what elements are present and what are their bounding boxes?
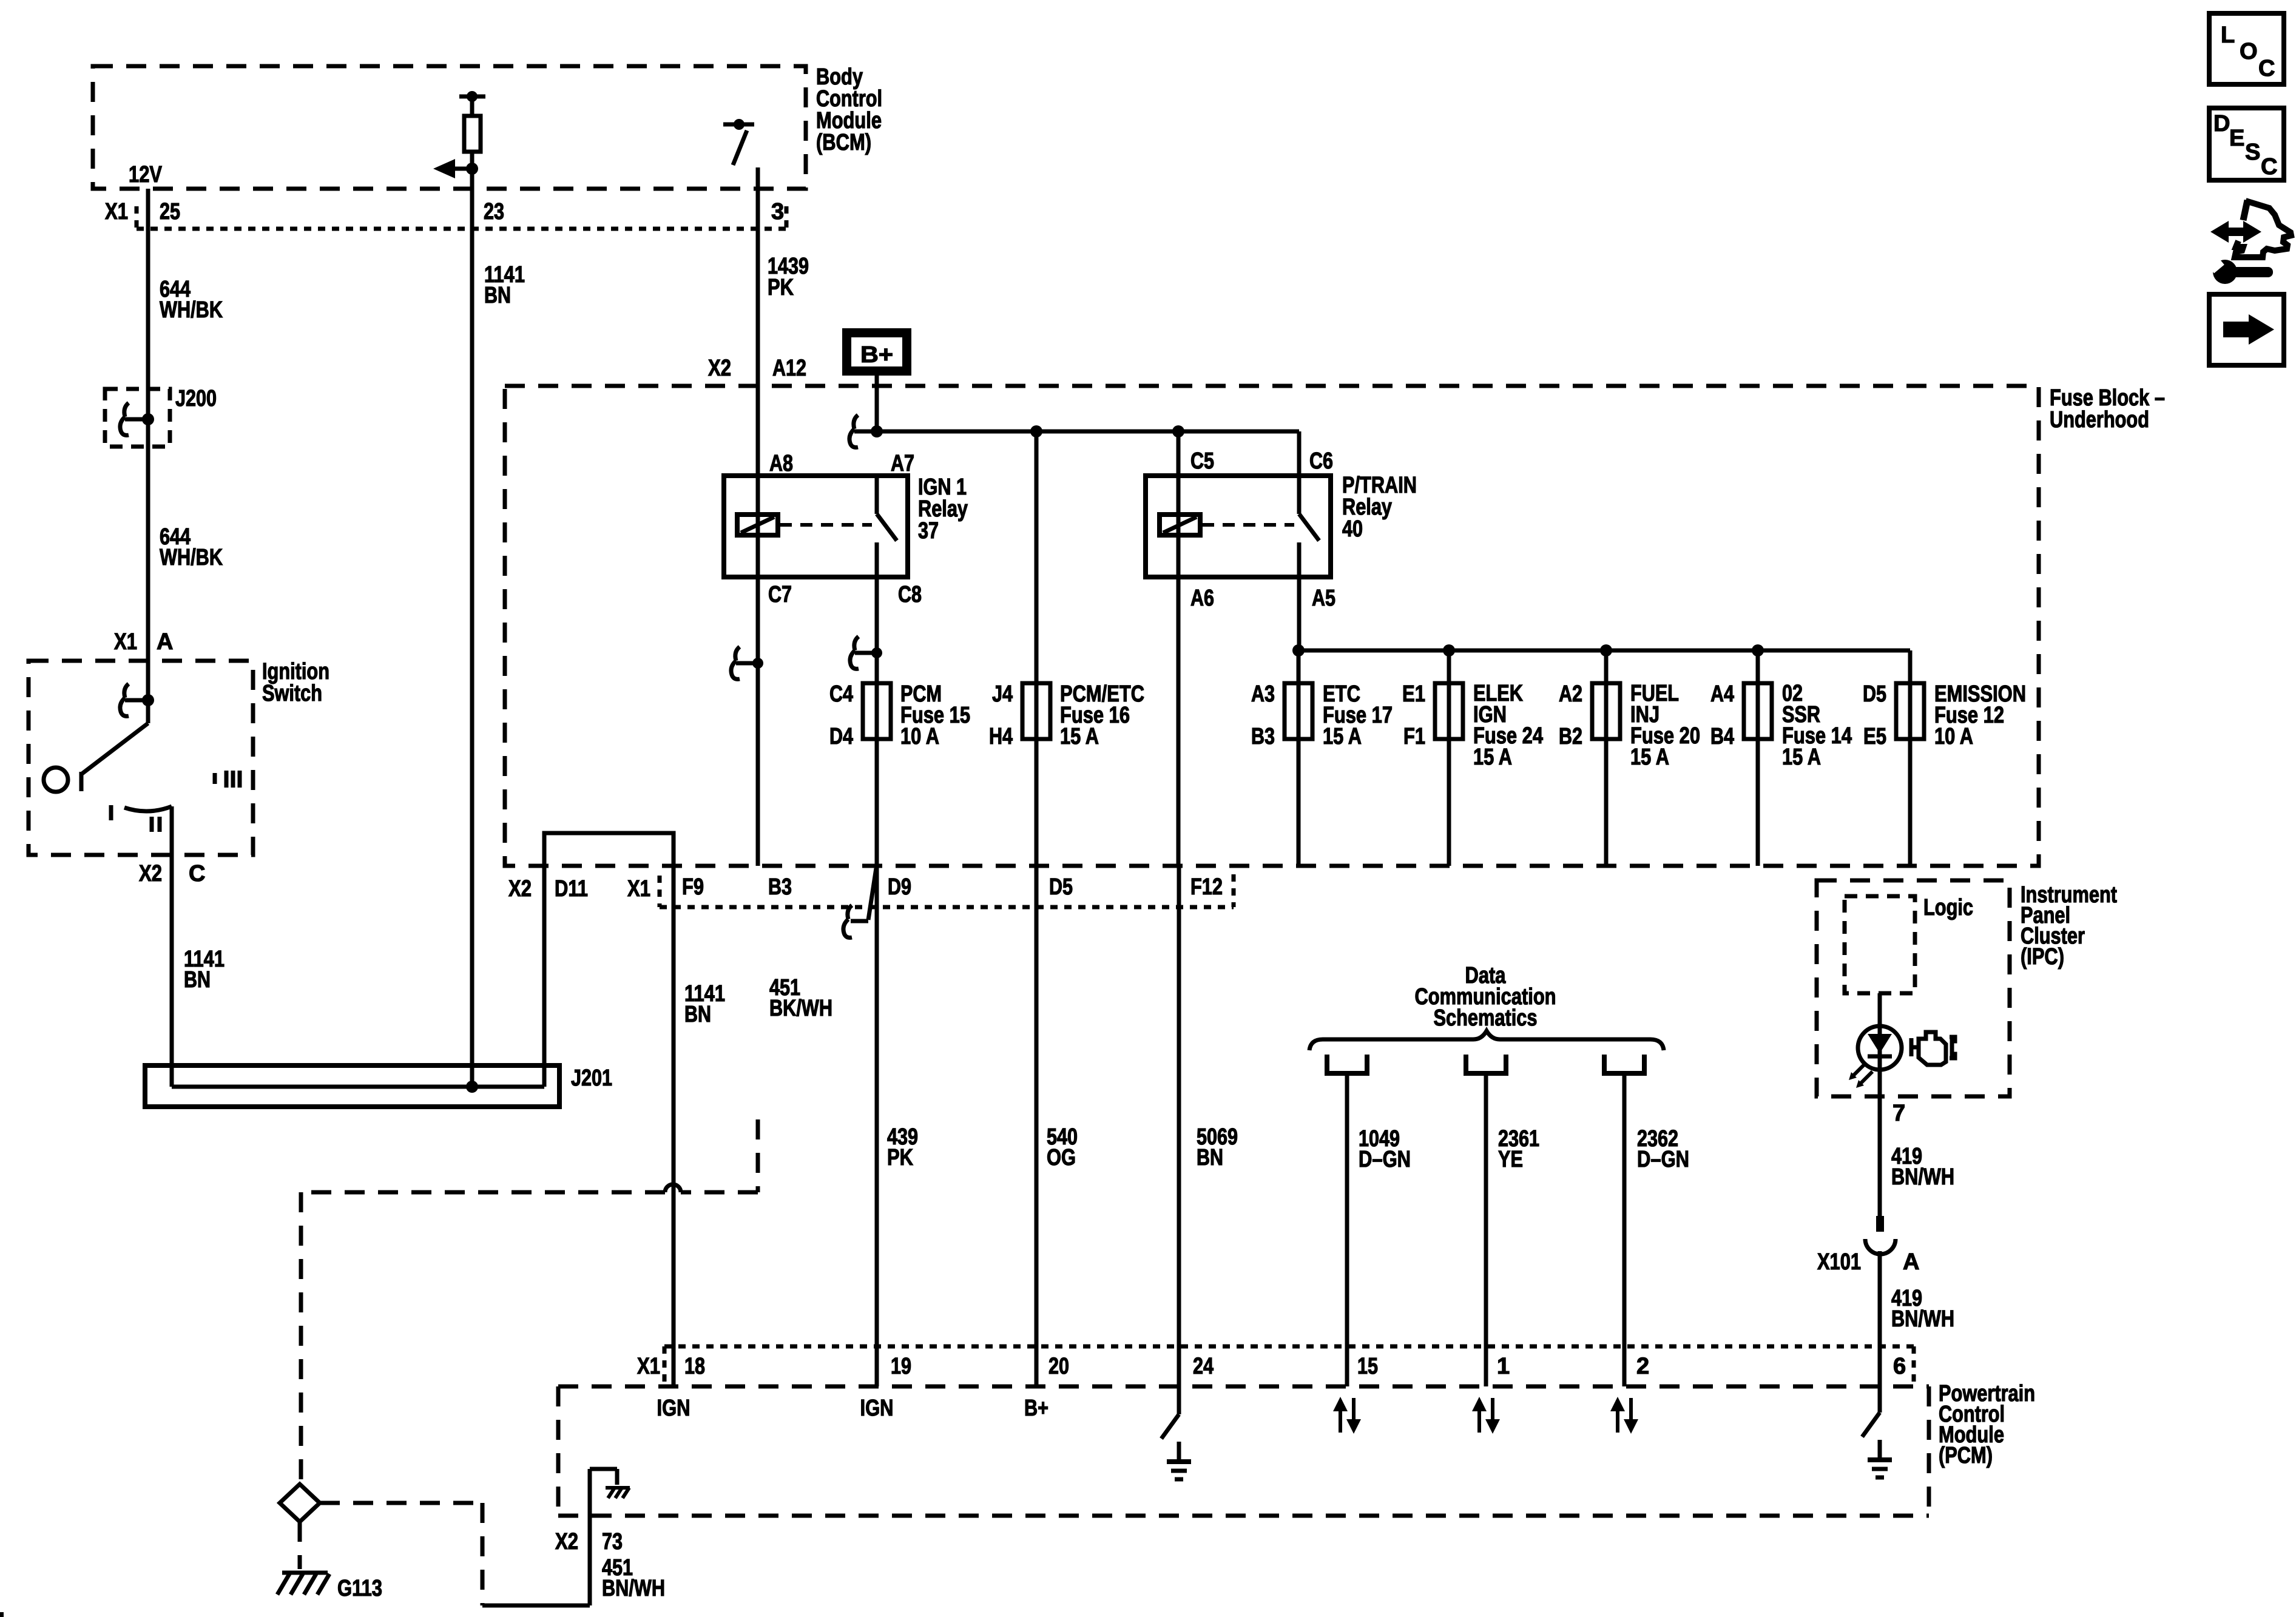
fuse PCM/ETC Fuse 16 15A xyxy=(1022,683,1050,739)
fuse 02 SSR Fuse 14 15A xyxy=(1744,683,1772,739)
relay P/TRAIN switch xyxy=(1299,476,1319,577)
connector stub wire 2361 xyxy=(1466,1055,1506,1386)
svg-text:40: 40 xyxy=(1342,516,1363,542)
svg-text:E: E xyxy=(2229,126,2244,151)
ignition switch blade xyxy=(81,700,148,791)
wire ELEK IGN fuse xyxy=(1447,650,1451,866)
svg-text:15: 15 xyxy=(1357,1354,1378,1379)
svg-text:D9: D9 xyxy=(888,874,911,900)
svg-text:X101: X101 xyxy=(1817,1249,1861,1275)
svg-text:X1: X1 xyxy=(105,199,128,224)
BCM connector X1 dotted row xyxy=(137,206,786,229)
svg-text:O: O xyxy=(2240,39,2258,64)
dashed wire diamond to ground xyxy=(298,1522,302,1569)
svg-text:73: 73 xyxy=(602,1529,623,1555)
svg-text:BK/WH: BK/WH xyxy=(769,996,832,1021)
wire fuse16 down xyxy=(1035,431,1039,1386)
svg-text:A5: A5 xyxy=(1312,586,1335,611)
svg-text:D–GN: D–GN xyxy=(1637,1147,1689,1172)
IPC label xyxy=(2021,882,2117,970)
svg-text:B4: B4 xyxy=(1710,724,1734,749)
svg-text:Underhood: Underhood xyxy=(2050,407,2149,433)
relay IGN1 switch xyxy=(877,476,897,577)
svg-text:A6: A6 xyxy=(1190,586,1214,611)
svg-text:37: 37 xyxy=(918,518,939,544)
svg-text:F9: F9 xyxy=(682,874,704,900)
splice at B+ bus xyxy=(849,415,883,447)
svg-text:BN: BN xyxy=(1197,1145,1223,1170)
label 451 BN/WH xyxy=(602,1555,665,1601)
svg-text:C: C xyxy=(2261,154,2277,180)
svg-text:X1: X1 xyxy=(637,1354,660,1379)
wire 451 BN/WH to PCM 73 xyxy=(482,1469,617,1605)
svg-text:WH/BK: WH/BK xyxy=(160,545,223,570)
wire 644 WH/BK (BCM 25 to ignition switch) xyxy=(146,189,150,723)
IPC box xyxy=(1817,880,2010,1096)
svg-text:OG: OG xyxy=(1047,1145,1076,1170)
relay P/TRAIN box xyxy=(1146,476,1331,577)
label Data Communication Schematics xyxy=(1415,963,1556,1031)
label 1141 BN xyxy=(484,262,525,308)
relay P/TRAIN labels xyxy=(1342,473,1417,542)
PCM box xyxy=(558,1386,1929,1516)
svg-text:X1: X1 xyxy=(114,629,137,655)
svg-text:X2: X2 xyxy=(708,356,731,381)
svg-text:12V: 12V xyxy=(129,162,163,187)
ground at PCM 24 xyxy=(1161,866,1191,1479)
svg-text:18: 18 xyxy=(684,1354,705,1379)
svg-text:F12: F12 xyxy=(1190,874,1223,900)
arrows data 2 xyxy=(1610,1397,1638,1434)
label 439 PK xyxy=(887,1124,918,1170)
svg-text:6: 6 xyxy=(1893,1354,1906,1379)
wire A5 down xyxy=(1297,577,1302,650)
splice pack J201 xyxy=(145,1065,559,1107)
svg-text:2: 2 xyxy=(1636,1354,1649,1379)
logic box xyxy=(1845,896,1915,993)
contact arc xyxy=(124,806,172,811)
svg-text:B3: B3 xyxy=(1251,724,1275,749)
fuse block X1 dotted row xyxy=(660,874,1234,907)
wire 1439 PK (BCM 3 to relay A8) xyxy=(756,167,760,476)
fuse ELEK IGN Fuse 24 15A xyxy=(1435,683,1463,739)
fuse PCM Fuse 15 10A xyxy=(863,683,891,739)
svg-text:3: 3 xyxy=(771,199,784,224)
svg-text:C: C xyxy=(189,861,205,886)
position marks I II III xyxy=(111,771,240,832)
page artifact dot bottom-left xyxy=(0,1612,4,1617)
svg-text:BN/WH: BN/WH xyxy=(1891,1306,1954,1332)
svg-text:1: 1 xyxy=(1497,1354,1510,1379)
wire 1141 BN (BCM 23 to J201) xyxy=(470,96,474,1087)
connector stub wire 2362 xyxy=(1604,1055,1644,1386)
svg-text:25: 25 xyxy=(160,199,180,224)
wire B+ down xyxy=(875,376,879,431)
svg-text:19: 19 xyxy=(891,1354,911,1379)
label 5069 BN xyxy=(1197,1124,1238,1170)
blade lower end gap wire start xyxy=(768,254,809,300)
svg-text:X2: X2 xyxy=(139,861,162,886)
svg-text:C: C xyxy=(2258,56,2275,81)
BCM label xyxy=(816,64,882,155)
svg-text:15 A: 15 A xyxy=(1630,744,1669,770)
svg-text:A2: A2 xyxy=(1559,681,1582,707)
fuse FUEL INJ Fuse 20 15A xyxy=(1592,683,1620,739)
label 644 WH/BK upper xyxy=(160,277,223,323)
svg-text:D–GN: D–GN xyxy=(1359,1147,1411,1172)
label 1141 BN xyxy=(684,981,725,1027)
svg-text:(IPC): (IPC) xyxy=(2021,944,2064,970)
brace xyxy=(1309,1031,1664,1050)
icon DESC box xyxy=(2209,108,2284,180)
B+ bus to C6 xyxy=(877,430,1299,434)
node junction C5 xyxy=(1172,425,1184,437)
label 2362 D-GN xyxy=(1637,1126,1689,1172)
svg-text:C7: C7 xyxy=(768,582,792,607)
icon forward-arrow box xyxy=(2209,294,2284,365)
component ground at PCM 73 xyxy=(606,1488,630,1498)
svg-text:BN/WH: BN/WH xyxy=(1891,1164,1954,1190)
svg-text:Switch: Switch xyxy=(262,681,322,706)
svg-text:A4: A4 xyxy=(1710,681,1734,707)
wire logic to pin 7 xyxy=(1878,993,1882,1216)
svg-text:G113: G113 xyxy=(337,1576,382,1601)
svg-text:YE: YE xyxy=(1498,1147,1523,1172)
svg-text:20: 20 xyxy=(1048,1354,1069,1379)
svg-text:C4: C4 xyxy=(829,681,853,707)
B+ terminal box xyxy=(842,328,911,376)
svg-text:(BCM): (BCM) xyxy=(816,130,871,155)
svg-text:BN: BN xyxy=(184,967,211,993)
svg-text:15 A: 15 A xyxy=(1473,744,1512,770)
relay IGN1 coil xyxy=(737,476,778,577)
icon component-locator (double arrow, outline, wrench) xyxy=(2209,200,2291,284)
wire 1141 BN (ignition C to J201) xyxy=(170,806,174,1087)
dashed wire diamond to PCM X2 xyxy=(320,1503,482,1605)
wire 02 SSR fuse xyxy=(1756,650,1760,866)
PCM label xyxy=(1939,1381,2035,1468)
label 644 WH/BK lower xyxy=(160,524,223,570)
svg-text:Logic: Logic xyxy=(1923,895,1973,920)
svg-text:D: D xyxy=(2213,111,2230,137)
fuse block underhood box xyxy=(505,386,2039,866)
svg-text:L: L xyxy=(2221,22,2235,48)
relay P/TRAIN coil xyxy=(1160,431,1200,577)
relay IGN 1 box xyxy=(724,476,908,577)
svg-text:X2: X2 xyxy=(508,876,532,902)
wire FUEL INJ fuse xyxy=(1604,650,1609,866)
svg-text:BN/WH: BN/WH xyxy=(602,1576,665,1601)
svg-text:D4: D4 xyxy=(829,724,853,749)
svg-text:IGN: IGN xyxy=(657,1396,690,1421)
svg-text:C8: C8 xyxy=(898,582,922,607)
wire 1141 BN (J201 to fuse block D11 to F9) xyxy=(544,833,674,1386)
BCM box xyxy=(93,66,806,189)
svg-text:Schematics: Schematics xyxy=(1434,1005,1538,1031)
label 419 BN/WH xyxy=(1891,1286,1954,1332)
svg-text:A8: A8 xyxy=(769,451,793,476)
svg-text:10 A: 10 A xyxy=(900,724,939,749)
icon LOC box xyxy=(2209,13,2284,84)
svg-text:A12: A12 xyxy=(772,356,806,381)
fuse ETC Fuse 17 15A xyxy=(1285,683,1312,739)
svg-text:B2: B2 xyxy=(1559,724,1582,749)
splice in ignition switch xyxy=(120,684,154,716)
connector J200 xyxy=(105,389,170,447)
PCM X1 dotted row xyxy=(664,1346,1914,1385)
svg-text:C6: C6 xyxy=(1309,448,1333,474)
svg-text:J4: J4 xyxy=(992,681,1013,707)
svg-text:7: 7 xyxy=(1893,1101,1905,1126)
wire C8 down through fuse 15 xyxy=(875,577,879,1386)
contact circle O xyxy=(44,768,68,792)
svg-text:A: A xyxy=(1903,1249,1919,1275)
wire down to C6 xyxy=(1297,431,1302,476)
node junction fuse16 xyxy=(1030,425,1042,437)
svg-text:H4: H4 xyxy=(989,724,1013,749)
fuse bus xyxy=(1298,649,1910,653)
wire A6 to F12 5069 BN xyxy=(1177,577,1181,866)
ground G113 xyxy=(277,1573,329,1595)
svg-text:23: 23 xyxy=(484,199,504,224)
switch (BCM internal, wire 3) xyxy=(723,119,754,165)
svg-text:D11: D11 xyxy=(555,876,588,902)
svg-text:D5: D5 xyxy=(1863,681,1886,707)
label 1141 BN xyxy=(184,947,225,993)
svg-text:15 A: 15 A xyxy=(1782,744,1821,770)
dashed wire 451 to G113 xyxy=(301,1119,758,1484)
svg-text:B3: B3 xyxy=(768,874,792,900)
svg-text:A7: A7 xyxy=(891,451,914,476)
terminal clip at D9 xyxy=(843,868,876,937)
resistor (BCM internal, wire 23) xyxy=(459,91,485,102)
connector stub wire 1049 xyxy=(1327,1055,1367,1386)
svg-text:E5: E5 xyxy=(1863,724,1886,749)
ground at PCM 6 xyxy=(1862,1386,1892,1477)
svg-text:X1: X1 xyxy=(627,876,650,902)
svg-text:15 A: 15 A xyxy=(1323,724,1362,749)
svg-text:S: S xyxy=(2245,140,2260,165)
svg-text:J200: J200 xyxy=(175,386,217,411)
svg-text:B+: B+ xyxy=(1024,1396,1048,1421)
svg-text:(PCM): (PCM) xyxy=(1939,1443,1993,1468)
svg-text:BN: BN xyxy=(484,283,511,308)
label 451 BK/WH xyxy=(769,975,832,1021)
svg-text:A3: A3 xyxy=(1251,681,1275,707)
resistor body (BCM internal) xyxy=(464,116,481,152)
arrows data 15 xyxy=(1333,1397,1361,1434)
splice diamond xyxy=(280,1484,320,1522)
splice on C7 wire xyxy=(731,647,763,679)
svg-text:15 A: 15 A xyxy=(1060,724,1099,749)
wire ETC fuse xyxy=(1297,650,1301,866)
ignition switch box xyxy=(29,661,253,855)
fuse block label xyxy=(2050,385,2165,433)
svg-text:PK: PK xyxy=(887,1145,913,1170)
splice on C8 wire xyxy=(850,636,882,669)
svg-text:E1: E1 xyxy=(1402,681,1425,707)
relay IGN1 link xyxy=(780,523,872,527)
label 419 BN/WH xyxy=(1891,1144,1954,1190)
svg-text:WH/BK: WH/BK xyxy=(160,297,223,323)
connector X101 xyxy=(1865,1216,1896,1386)
svg-text:10 A: 10 A xyxy=(1934,724,1973,749)
fuse EMISSION Fuse 12 10A xyxy=(1896,683,1924,739)
wire C7 to B3 451 BK/WH xyxy=(756,577,760,866)
svg-text:A: A xyxy=(157,629,173,655)
relay P/TRAIN link xyxy=(1202,523,1294,527)
wire EMISSION fuse xyxy=(1908,650,1913,866)
arrow junction (BCM internal, wire 23) xyxy=(433,159,478,178)
svg-text:J201: J201 xyxy=(571,1065,612,1091)
svg-text:F1: F1 xyxy=(1403,724,1425,749)
ignition switch label xyxy=(262,659,329,706)
LED indicator xyxy=(1849,1026,1902,1088)
svg-text:24: 24 xyxy=(1193,1354,1214,1379)
svg-text:BN: BN xyxy=(684,1002,711,1027)
label 1049 D-GN xyxy=(1359,1126,1411,1172)
arrows data 1 xyxy=(1472,1397,1500,1434)
svg-text:IGN: IGN xyxy=(860,1396,894,1421)
svg-text:B+: B+ xyxy=(860,342,893,368)
engine icon xyxy=(1911,1032,1955,1065)
svg-text:C5: C5 xyxy=(1190,448,1214,474)
svg-text:PK: PK xyxy=(768,275,794,300)
svg-text:X2: X2 xyxy=(555,1529,578,1555)
label 540 OG xyxy=(1047,1124,1078,1170)
relay IGN 1 labels xyxy=(918,474,968,544)
svg-text:D5: D5 xyxy=(1049,874,1073,900)
label 2361 YE xyxy=(1498,1126,1539,1172)
